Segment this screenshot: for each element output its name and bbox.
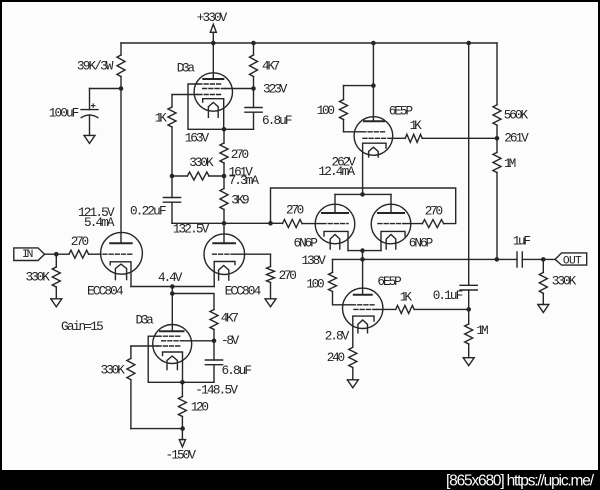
svg-text:4.4V: 4.4V — [158, 270, 183, 285]
svg-text:7.3mA: 7.3mA — [229, 173, 260, 188]
svg-text:IN: IN — [22, 249, 33, 261]
svg-text:6N6P: 6N6P — [409, 236, 433, 251]
svg-text:6N6P: 6N6P — [294, 235, 318, 250]
svg-text:4K7: 4K7 — [221, 311, 239, 326]
svg-text:270: 270 — [286, 203, 304, 218]
svg-text:3K9: 3K9 — [231, 193, 249, 208]
svg-text:270: 270 — [231, 147, 249, 162]
svg-text:D3a: D3a — [136, 312, 155, 327]
svg-text:5.4mA: 5.4mA — [84, 215, 115, 230]
svg-text:6E5P: 6E5P — [389, 104, 413, 119]
svg-text:261V: 261V — [504, 130, 529, 145]
svg-text:138V: 138V — [302, 253, 327, 268]
svg-text:2.8V: 2.8V — [325, 329, 350, 344]
svg-text:0.1uF: 0.1uF — [433, 288, 464, 303]
svg-text:330K: 330K — [101, 362, 126, 377]
svg-text:[865x680] https://upic.me/: [865x680] https://upic.me/ — [446, 473, 595, 490]
svg-text:39K/3W: 39K/3W — [77, 59, 114, 74]
svg-text:0.22uF: 0.22uF — [130, 204, 167, 219]
svg-text:120: 120 — [191, 400, 209, 415]
svg-text:1K: 1K — [410, 118, 423, 133]
svg-text:240: 240 — [327, 350, 345, 365]
svg-text:560K: 560K — [504, 108, 529, 123]
svg-text:1K: 1K — [155, 110, 168, 125]
svg-text:4K7: 4K7 — [262, 59, 280, 74]
svg-text:100uF: 100uF — [49, 105, 80, 120]
svg-text:+330V: +330V — [197, 10, 228, 25]
svg-text:270: 270 — [425, 204, 443, 219]
svg-text:6.8uF: 6.8uF — [262, 113, 293, 128]
svg-text:100: 100 — [306, 276, 324, 291]
svg-text:1uF: 1uF — [513, 233, 531, 248]
svg-text:1M: 1M — [504, 156, 516, 171]
svg-text:100: 100 — [317, 103, 335, 118]
svg-text:330K: 330K — [552, 274, 577, 289]
svg-text:-148.5V: -148.5V — [195, 382, 238, 397]
svg-text:323V: 323V — [263, 82, 288, 97]
svg-text:12.4mA: 12.4mA — [318, 164, 355, 179]
svg-text:-8V: -8V — [221, 333, 240, 348]
svg-text:330K: 330K — [26, 270, 51, 285]
svg-text:270: 270 — [279, 268, 297, 283]
svg-text:OUT: OUT — [563, 255, 582, 267]
svg-text:ECC804: ECC804 — [225, 283, 262, 298]
svg-text:ECC804: ECC804 — [87, 284, 124, 299]
svg-text:163V: 163V — [185, 131, 210, 146]
svg-text:270: 270 — [71, 234, 89, 249]
svg-text:6.8uF: 6.8uF — [222, 363, 253, 378]
svg-text:-150V: -150V — [166, 447, 197, 462]
svg-text:D3a: D3a — [177, 61, 196, 76]
svg-text:1M: 1M — [476, 323, 488, 338]
svg-text:330K: 330K — [189, 155, 214, 170]
svg-text:Gain=15: Gain=15 — [61, 319, 104, 334]
svg-text:132.5V: 132.5V — [173, 221, 210, 236]
svg-text:1K: 1K — [400, 289, 413, 304]
svg-text:6E5P: 6E5P — [377, 274, 401, 289]
